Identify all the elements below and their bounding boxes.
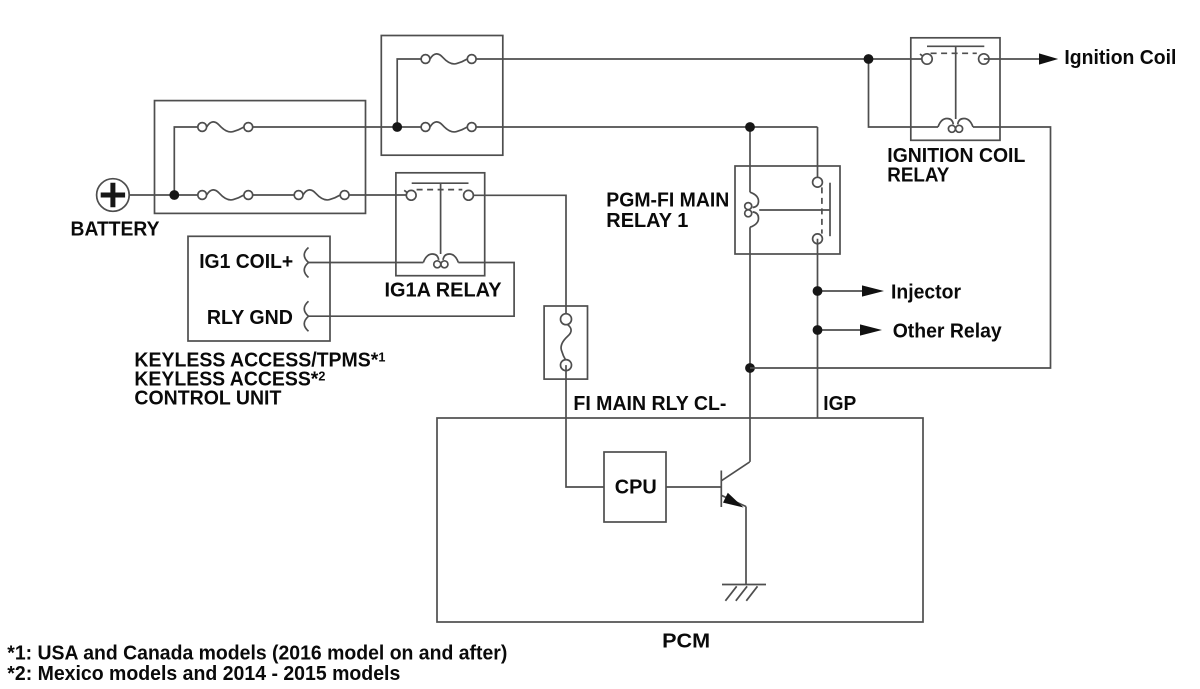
connector pigtail IG1 COIL+ xyxy=(304,248,308,278)
svg-text:PCM: PCM xyxy=(662,631,710,653)
fuse F5 xyxy=(421,122,476,132)
fuse F1 xyxy=(198,122,253,132)
relay PGM-FI MAIN 1 xyxy=(735,166,840,254)
wire between fuses F2 F3 xyxy=(248,194,298,196)
ground xyxy=(722,585,766,601)
CPU box xyxy=(604,452,666,522)
junction dot ignition relay xyxy=(864,54,874,64)
fuse box (battery junction box) xyxy=(155,101,366,214)
wire IG1A contact to FI MAIN fuse xyxy=(473,195,566,319)
wire junction up to fuse row xyxy=(174,127,202,195)
fuse F2 xyxy=(198,190,253,200)
wire PGM-FI contact to PCM (IGP) xyxy=(817,239,819,418)
svg-text:*1: USA and Canada models (201: *1: USA and Canada models (2016 model on… xyxy=(7,643,507,665)
connector pigtail RLY GND xyxy=(304,301,308,331)
junction dot top fuse box xyxy=(392,122,402,132)
svg-text:Ignition Coil: Ignition Coil xyxy=(1064,47,1176,69)
fuse F4 xyxy=(421,54,476,64)
relay IGNITION COIL xyxy=(911,38,1000,141)
wire injector branch xyxy=(818,290,863,292)
wire fuse F3 to IG1A relay xyxy=(345,194,407,196)
wire junction to fuse F5 xyxy=(397,126,425,128)
PCM box xyxy=(437,418,923,622)
svg-text:IG1 COIL+: IG1 COIL+ xyxy=(199,251,293,273)
svg-text:*2: Mexico models and 2014 - 2: *2: Mexico models and 2014 - 2015 models xyxy=(7,663,400,685)
arrowhead other relay xyxy=(860,324,882,335)
fuse FI MAIN (vertical) xyxy=(544,306,587,379)
arrowhead injector xyxy=(862,285,884,296)
wire emitter to ground xyxy=(745,507,747,585)
svg-text:RLY GND: RLY GND xyxy=(207,307,293,329)
wire other relay branch xyxy=(818,329,861,331)
fuse F3 xyxy=(294,190,349,200)
wire junction up to top fuse row xyxy=(397,59,425,127)
fuse box (top under-hood box) xyxy=(381,36,503,156)
wire IG1A coil to RLY GND xyxy=(309,263,515,317)
wire relay coil loop right xyxy=(750,127,1051,368)
svg-text:BATTERY: BATTERY xyxy=(71,219,161,241)
svg-text:Injector: Injector xyxy=(891,282,961,304)
wire fuse F1 to top fuse box xyxy=(248,126,397,128)
transistor Q1 xyxy=(721,462,749,508)
svg-text:Other Relay: Other Relay xyxy=(893,320,1003,342)
wire battery to junction xyxy=(129,194,202,196)
arrowhead ignition coil xyxy=(1039,53,1058,64)
svg-text:RELAY: RELAY xyxy=(887,164,950,186)
keyless access control unit box xyxy=(188,236,330,341)
wire ignition coil output xyxy=(984,58,1039,60)
junction dot PGM-FI top xyxy=(745,122,755,132)
svg-text:CONTROL UNIT: CONTROL UNIT xyxy=(134,388,281,410)
svg-text:CPU: CPU xyxy=(615,477,657,499)
svg-text:RELAY 1: RELAY 1 xyxy=(606,210,688,232)
junction dot battery row xyxy=(169,190,179,200)
svg-text:PGM-FI MAIN: PGM-FI MAIN xyxy=(606,189,729,211)
injector dot xyxy=(813,286,823,296)
wire CPU to transistor base xyxy=(666,486,721,488)
junction dot IGP branch xyxy=(745,363,755,373)
wire IG1 COIL+ to IG1A coil xyxy=(309,262,424,264)
battery xyxy=(97,179,130,212)
other relay dot xyxy=(813,325,823,335)
relay IG1A xyxy=(396,173,485,276)
wire fuse F4 to ignition coil relay xyxy=(472,58,927,60)
wire PGM-FI coil vertical to transistor xyxy=(749,127,751,462)
svg-text:FI MAIN RLY CL-: FI MAIN RLY CL- xyxy=(573,393,726,415)
svg-text:IGP: IGP xyxy=(823,393,856,415)
keyless unit label xyxy=(134,350,385,410)
wire fuse to CPU xyxy=(566,365,604,487)
wire fuse F5 to PGM-FI relay xyxy=(472,127,818,182)
wire relay coil loop left xyxy=(869,59,939,127)
svg-text:IG1A RELAY: IG1A RELAY xyxy=(385,279,503,301)
